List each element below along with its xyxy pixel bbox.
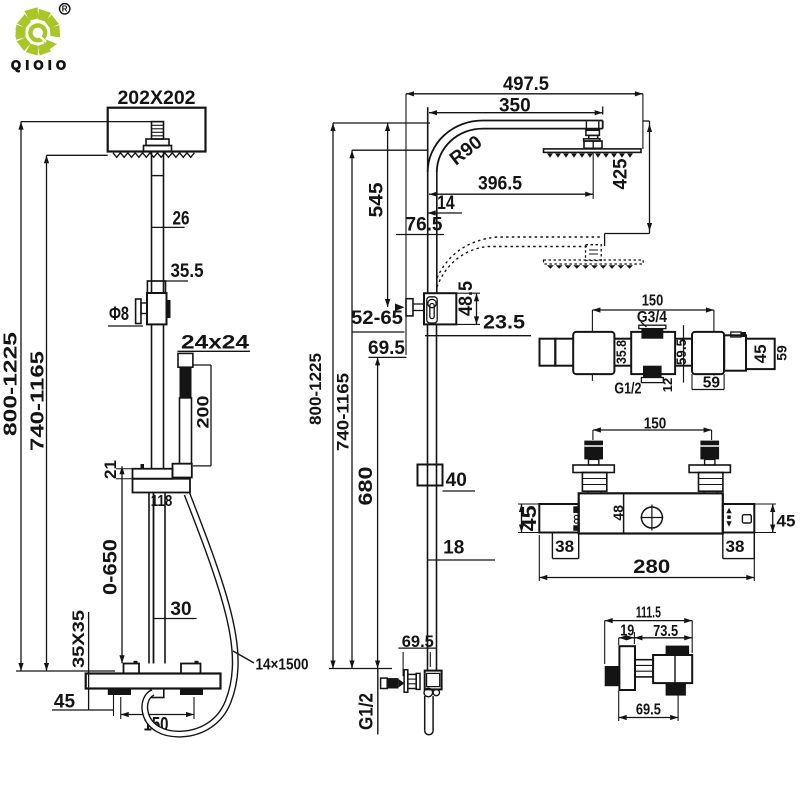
svg-text:59: 59	[703, 374, 721, 391]
svg-text:26: 26	[173, 209, 190, 230]
svg-text:800-1225: 800-1225	[0, 332, 20, 436]
svg-text:21: 21	[101, 460, 120, 479]
svg-text:35.8: 35.8	[613, 340, 629, 364]
svg-text:52-65: 52-65	[351, 308, 403, 329]
svg-text:150: 150	[644, 415, 667, 432]
svg-text:45: 45	[751, 344, 770, 363]
svg-text:48: 48	[610, 505, 626, 521]
svg-text:497.5: 497.5	[503, 74, 549, 95]
svg-text:14: 14	[437, 193, 455, 214]
svg-text:150: 150	[642, 293, 664, 310]
svg-text:G1/2: G1/2	[357, 693, 378, 730]
svg-text:680: 680	[356, 467, 377, 506]
svg-text:0-650: 0-650	[101, 539, 122, 595]
svg-text:69.5: 69.5	[636, 701, 661, 718]
svg-text:14×1500: 14×1500	[256, 656, 309, 673]
svg-text:19: 19	[620, 622, 634, 639]
svg-text:Φ8: Φ8	[109, 304, 129, 325]
svg-text:48.5: 48.5	[456, 281, 477, 316]
svg-text:18: 18	[443, 538, 464, 559]
svg-text:30: 30	[170, 599, 191, 620]
svg-text:76.5: 76.5	[406, 215, 443, 236]
svg-text:38: 38	[726, 537, 745, 556]
svg-text:G1/2: G1/2	[614, 380, 641, 397]
svg-text:350: 350	[499, 96, 531, 117]
svg-text:740-1165: 740-1165	[333, 373, 352, 451]
svg-text:59: 59	[773, 345, 789, 361]
svg-text:40: 40	[446, 470, 467, 491]
svg-text:202X202: 202X202	[117, 87, 195, 109]
svg-text:111.5: 111.5	[636, 604, 661, 621]
svg-text:QIOIO: QIOIO	[11, 58, 70, 73]
svg-text:545: 545	[367, 182, 388, 217]
svg-text:35X35: 35X35	[69, 610, 88, 668]
svg-text:73.5: 73.5	[653, 623, 678, 640]
svg-text:200: 200	[193, 396, 212, 429]
svg-text:45: 45	[777, 511, 796, 530]
svg-text:24x24: 24x24	[181, 331, 249, 353]
svg-text:396.5: 396.5	[478, 174, 522, 195]
svg-text:69.5: 69.5	[368, 338, 405, 359]
svg-text:R: R	[62, 5, 68, 14]
svg-text:38: 38	[555, 537, 574, 556]
svg-text:23.5: 23.5	[483, 313, 525, 334]
svg-text:280: 280	[633, 557, 670, 578]
svg-text:G3/4: G3/4	[637, 309, 667, 326]
svg-text:12: 12	[660, 378, 675, 392]
svg-text:59.5: 59.5	[673, 339, 689, 365]
svg-text:800-1225: 800-1225	[306, 353, 325, 425]
svg-text:740-1165: 740-1165	[27, 351, 47, 451]
svg-text:35.5: 35.5	[171, 261, 204, 282]
svg-text:425: 425	[611, 158, 632, 189]
